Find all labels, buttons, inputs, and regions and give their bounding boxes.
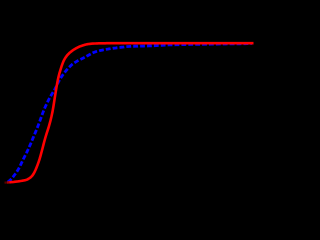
red faded tail brighter part: [7, 181, 10, 184]
blue dashed hyperbolic (Michaelis-Menten-like) curve: [8, 44, 252, 182]
red solid sigmoid curve, faded left tail start: [5, 181, 8, 183]
red solid sigmoid curve main: [10, 43, 254, 182]
